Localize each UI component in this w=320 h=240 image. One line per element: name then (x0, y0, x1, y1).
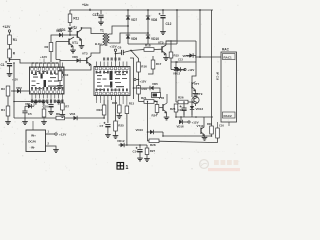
svg-text:R27: R27 (150, 149, 156, 153)
diode VD13 right (177, 67, 181, 71)
resistor R17 (152, 56, 154, 60)
resistor R1 (8, 35, 12, 45)
resistor R15 (170, 41, 172, 52)
svg-text:VD8: VD8 (151, 18, 157, 22)
svg-text:R23: R23 (170, 107, 176, 111)
svg-text:VD12: VD12 (117, 139, 125, 143)
wire tap to C6 (116, 52, 122, 55)
svg-text:VD2: VD2 (16, 86, 22, 90)
svg-text:9F C10: 9F C10 (216, 72, 219, 81)
wire VT2 source to ground (81, 40, 83, 45)
svg-text:C6: C6 (118, 46, 122, 50)
svg-text:DC/N: DC/N (28, 140, 36, 144)
svg-text:R17: R17 (156, 62, 162, 66)
svg-text:VD10: VD10 (136, 128, 144, 132)
load RAC2 label (223, 112, 236, 118)
wire VD6 left branch down (59, 61, 61, 71)
wire T1 secondary top to bridge node A (109, 26, 128, 34)
wire VD5 row (134, 87, 151, 89)
wire loop to right (163, 135, 212, 137)
wire bridge bottom (128, 43, 177, 45)
svg-text:IN+: IN+ (31, 134, 36, 138)
wire into RAC1 (195, 56, 221, 58)
wire C1 node to IC1 top bus (10, 60, 59, 64)
svg-text:R30: R30 (207, 122, 212, 126)
resistor R26 (178, 100, 188, 104)
resistor R28 (148, 132, 150, 141)
svg-text:+UN: +UN (82, 3, 88, 7)
ground IC1 pin4 (42, 100, 44, 102)
svg-text:VD13: VD13 (173, 72, 180, 76)
svg-text:VT7: VT7 (194, 82, 200, 86)
wire lower right rail (176, 116, 213, 118)
svg-text:R28: R28 (150, 143, 156, 147)
module DC/DC converter (26, 130, 46, 152)
wire DC out- (46, 146, 57, 148)
IC U2 (IC2) body (94, 67, 130, 96)
svg-text:- -- - -- -- - -- - --: - -- - -- -- - -- - -- (194, 151, 225, 154)
wire R2 branch from VD3 to IC1 (51, 35, 56, 43)
wire DC out+ (46, 133, 55, 135)
svg-text:R12: R12 (112, 101, 118, 105)
svg-text:VD12: VD12 (179, 68, 186, 72)
node R10 top (59, 69, 61, 71)
capacitor C12 (162, 10, 164, 15)
diode VD10 (146, 35, 150, 39)
wire VT7 to VT9 (191, 89, 193, 98)
capacitor C5 (22, 110, 27, 112)
node C12 top (162, 9, 164, 11)
wire DCDC feed (32, 121, 34, 130)
ground IC1 pin8 (58, 100, 60, 102)
wire IC1 pin1 down (31, 99, 33, 102)
wire diagonal to R16 (131, 51, 139, 63)
svg-text:R25: R25 (118, 124, 124, 128)
svg-text:+12V: +12V (3, 25, 12, 29)
svg-text:R10: R10 (63, 73, 69, 77)
ground IC1 pin2 (35, 100, 37, 102)
svg-text:R1: R1 (13, 38, 17, 42)
wire VT5 emitter (165, 54, 167, 56)
resistor R19 (137, 86, 141, 95)
wire +12V branch (170, 62, 172, 70)
svg-text:R7: R7 (65, 105, 69, 109)
wire VD12 row (119, 144, 141, 146)
ground C5 (24, 120, 26, 122)
resistor R22 (103, 100, 105, 105)
IC1 bottom pin labels (31, 100, 33, 103)
ground DC/DC (55, 148, 57, 150)
ground VT10 (204, 134, 206, 137)
svg-text:R16: R16 (141, 65, 147, 69)
resistor R25 (115, 100, 117, 121)
node bridge top-left (127, 9, 129, 11)
resistor R16 (137, 62, 141, 72)
resistor R12 (118, 105, 122, 113)
ground C14 (139, 157, 141, 159)
wire R13 down to VD12 row (126, 114, 128, 146)
svg-text:C12: C12 (166, 22, 172, 26)
wire VD5 to R9 (154, 88, 160, 93)
svg-text:C16: C16 (219, 124, 224, 128)
capacitor C11 (100, 10, 102, 14)
wire right feeder 1 (199, 10, 201, 57)
wire R17 bottom (148, 72, 153, 74)
terminal +12V right (183, 121, 188, 123)
wire down to VT7 (192, 70, 196, 82)
ground VT8 (166, 116, 168, 118)
resistor R11 (69, 10, 71, 14)
ground VT1 emitter (72, 49, 74, 51)
svg-text:VD3: VD3 (56, 29, 62, 33)
svg-text:R22: R22 (97, 108, 103, 112)
LED1 (69, 23, 71, 27)
node loop left (147, 131, 149, 133)
svg-text:VT3: VT3 (82, 52, 88, 56)
svg-text:R11: R11 (73, 17, 79, 21)
IC2 pin label texts bottom (96, 89, 98, 92)
wire IC2 pins down stubs (96, 100, 98, 103)
wire R28 to right riser (159, 141, 218, 142)
ground VT7 upper (195, 92, 197, 94)
wire VT1 base to VD6 node (55, 42, 57, 60)
resistor R24 (155, 105, 159, 113)
node right bus (199, 9, 201, 11)
svg-text:VD5: VD5 (152, 82, 158, 86)
svg-text:VT5: VT5 (158, 41, 164, 45)
resistor R18 (144, 48, 154, 52)
resistor R13 (125, 106, 129, 114)
svg-text:C13: C13 (178, 58, 183, 62)
node VT2 drain (81, 27, 83, 29)
svg-text:C14: C14 (133, 150, 139, 154)
resistor R5 (43, 102, 45, 110)
svg-text:1: 1 (126, 165, 129, 171)
svg-text:VT1: VT1 (72, 41, 78, 45)
svg-text:R8: R8 (56, 112, 60, 116)
ground C12 (162, 30, 164, 32)
wire VT5 collector extension (166, 40, 196, 42)
node bridge top-right (147, 9, 149, 11)
svg-text:VT2: VT2 (71, 26, 77, 30)
svg-text:IN-: IN- (31, 146, 35, 150)
diode VD12 column (175, 62, 177, 67)
wire long lower bus (14, 117, 103, 119)
node loop right (162, 132, 164, 136)
resistor R10 (58, 71, 62, 81)
svg-text:R4: R4 (1, 108, 5, 112)
terminal +12V out (55, 133, 57, 135)
ground R5 (43, 120, 45, 122)
wire VT3 collector to T1 primary bottom (91, 48, 100, 56)
IC1 top pins (31, 63, 33, 68)
ground C7 (107, 133, 109, 135)
svg-text:RAC2: RAC2 (224, 114, 232, 118)
ground C10 (50, 110, 52, 112)
svg-text:C10: C10 (43, 105, 49, 109)
wire under-IC1 row (14, 101, 44, 103)
svg-text:VD7: VD7 (131, 18, 137, 22)
wire top +UN bus (70, 9, 213, 11)
svg-text:VD6: VD6 (72, 55, 78, 59)
svg-text:C5: C5 (28, 112, 32, 116)
component R9 coil (152, 93, 161, 98)
svg-text:+12V: +12V (110, 45, 117, 49)
ground R4 (7, 120, 9, 122)
svg-text:+12V: +12V (12, 79, 18, 82)
wire R30 to loop (211, 134, 213, 136)
resistor R4 (6, 106, 10, 116)
resistor R30 (210, 126, 214, 134)
ground C11 (100, 21, 102, 23)
IC1 bottom pins (31, 94, 33, 99)
ground VT2 source (81, 44, 83, 46)
diode VD13 (190, 106, 194, 110)
svg-text:+12V: +12V (40, 55, 47, 59)
wire bridge left branch (127, 10, 129, 44)
diode VD8 (146, 16, 150, 20)
wire mid rail right (171, 61, 196, 63)
IC U1 (IC1) body (30, 67, 65, 94)
wire C6 to R18 (131, 50, 144, 51)
label figure 1 (117, 163, 124, 170)
svg-text:T1: T1 (100, 29, 104, 33)
svg-text:VT9: VT9 (197, 92, 203, 96)
node A (127, 25, 129, 27)
IC2 internal markings (110, 71, 113, 80)
ground R27 (146, 157, 148, 159)
diode VD9 (126, 35, 130, 39)
diode VD1 (28, 104, 32, 108)
IC2 pin label texts top (96, 71, 98, 74)
node pin ties (32, 62, 34, 64)
wire VD13 C13 to rail (191, 110, 193, 117)
ground R12 (118, 114, 120, 116)
wire T1 secondary bottom to bridge node B (109, 33, 148, 43)
node C1 (9, 59, 11, 61)
svg-text:R19: R19 (142, 87, 148, 91)
ground R7 (61, 113, 63, 115)
capacitor C16 (216, 128, 220, 138)
svg-text:R24: R24 (152, 114, 158, 118)
wire +12V tap down to IC2 pin (115, 51, 117, 61)
wire T1 primary bottom (100, 45, 103, 48)
ground VT5 emitter (165, 56, 167, 58)
svg-text:VD16: VD16 (177, 125, 184, 129)
node B (147, 32, 149, 34)
IC2 top pin labels (103, 58, 105, 61)
resistor R2 (49, 43, 53, 52)
svg-text:C1: C1 (1, 63, 5, 67)
IC1 pin label texts top (31, 71, 33, 74)
svg-text:+12V: +12V (140, 80, 147, 84)
wire bottom right lower (228, 122, 230, 126)
svg-text:R18: R18 (145, 44, 151, 48)
IC1 internal markings (41, 74, 43, 79)
wire bridge bottom riser (176, 10, 178, 44)
svg-text:R13: R13 (129, 102, 135, 106)
diode VD7 (126, 16, 130, 20)
svg-text:+12V: +12V (188, 68, 195, 72)
wire left of VD6 (56, 60, 77, 61)
terminal +12V right mid (181, 69, 184, 71)
IC2 top pins (96, 62, 98, 67)
node bridge riser top (176, 9, 178, 11)
node C6 right (130, 50, 132, 52)
node VD12 (126, 144, 128, 146)
svg-text:RAC1: RAC1 (224, 55, 232, 59)
ground R10 (59, 84, 61, 86)
wire right feeder 2 (211, 10, 213, 134)
svg-text:C7: C7 (100, 124, 104, 128)
wire bridge right branch (147, 10, 149, 44)
resistor R23 (174, 104, 178, 112)
svg-text:+12V: +12V (59, 133, 67, 137)
svg-text:VT8: VT8 (159, 96, 165, 100)
wire left vertical to lower bus (13, 63, 15, 118)
resistor R7 (61, 103, 65, 110)
IC2 bottom pins (96, 96, 98, 101)
svg-text:VD9: VD9 (131, 37, 137, 41)
resistor R (8, 49, 12, 58)
node +UN terminal (89, 9, 91, 11)
svg-text:R26: R26 (178, 96, 184, 100)
svg-text:VD13: VD13 (196, 107, 204, 111)
node C6 tap (115, 53, 117, 55)
capacitor C7 (107, 100, 109, 123)
wire right riser x196 (195, 41, 197, 70)
wire loop riser (147, 102, 149, 133)
svg-text:VD14: VD14 (183, 54, 190, 58)
svg-text:B.1U: B.1U (95, 42, 101, 46)
node VT2 gate junction (69, 34, 71, 36)
IC1 pin label texts bottom (31, 87, 33, 90)
wire VT3 emitter down to R10 node (60, 65, 91, 71)
ground R25 (115, 134, 117, 136)
ground C1 (9, 72, 11, 74)
wire IC2 right chain (130, 58, 134, 99)
svg-text:VD4: VD4 (70, 112, 76, 116)
svg-text:R2: R2 (45, 45, 49, 49)
resistor R3 (11, 90, 14, 92)
svg-text:R3: R3 (1, 87, 5, 91)
svg-text:R15: R15 (174, 54, 180, 58)
node bus join (103, 117, 105, 119)
resistor R27 (146, 145, 148, 148)
svg-text:RAC: RAC (222, 48, 230, 52)
wire VT5 collector up (166, 41, 176, 45)
wire VT2 drain to T1 primary top (82, 28, 104, 34)
load RAC1 label (223, 54, 236, 60)
